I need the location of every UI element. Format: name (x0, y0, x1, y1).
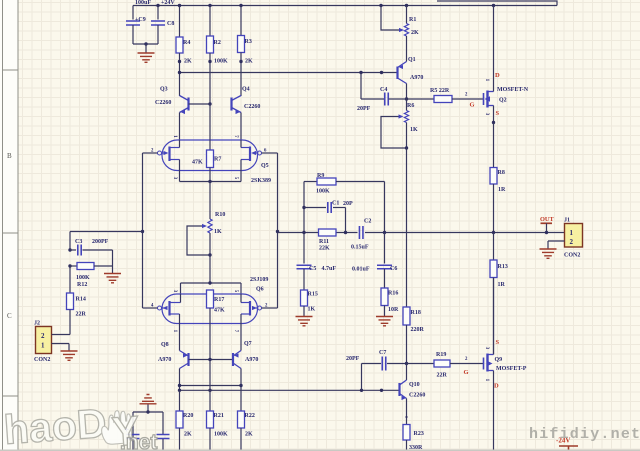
wire Q3-collector to Q1-base (180, 72, 398, 74)
svg-text:R7: R7 (214, 157, 221, 163)
wire Q3 emitter to JFET drain (179, 113, 181, 141)
svg-text:R8: R8 (498, 170, 505, 176)
svg-text:Q7: Q7 (244, 341, 252, 347)
svg-text:R22: R22 (245, 413, 255, 419)
MOSFET Q9 MOSFET-P (483, 358, 485, 370)
wire Q7 collector down (240, 369, 242, 391)
potentiometer R1 2K (405, 4, 408, 7)
svg-text:R3: R3 (245, 39, 252, 45)
resistor R4 (178, 4, 181, 7)
svg-text:1R: 1R (498, 282, 506, 288)
resistor R18 220R (403, 307, 410, 325)
svg-text:R15: R15 (308, 292, 318, 298)
resistor R2 (208, 4, 211, 7)
svg-text:2K: 2K (245, 59, 253, 65)
svg-text:2: 2 (41, 332, 45, 340)
svg-text:R20: R20 (183, 413, 193, 419)
svg-text:Q6: Q6 (256, 287, 264, 293)
wire J2 pin2 to R14 (52, 334, 71, 336)
JFET Q6 left half (168, 301, 170, 316)
svg-text:.net: .net (120, 431, 157, 451)
connector J1 CON2 (565, 224, 583, 248)
transistor Q10 C2260 (406, 364, 408, 381)
wire Q1 collector to VAS node (406, 84, 408, 100)
svg-text:R4: R4 (183, 40, 190, 46)
svg-text:Q10: Q10 (409, 382, 420, 388)
svg-text:G: G (464, 369, 469, 376)
svg-text:R9: R9 (317, 173, 324, 179)
svg-text:C2260: C2260 (155, 100, 171, 106)
svg-text:22R: 22R (437, 373, 448, 379)
wire input column (142, 153, 144, 308)
resistor R23 330R (403, 425, 410, 441)
svg-text:B: B (7, 152, 12, 160)
ground for C3/R12 (112, 250, 114, 273)
svg-text:1: 1 (41, 342, 45, 350)
svg-text:C8: C8 (167, 21, 174, 27)
JFET Q5 left half (168, 147, 170, 162)
resistor R15 1K (301, 290, 308, 306)
svg-text:A970: A970 (158, 357, 171, 363)
capacitor C6 0.01uF (384, 233, 386, 264)
ground under R15 (296, 317, 313, 326)
svg-text:R18: R18 (411, 310, 421, 316)
capacitor C2 0.15uF (359, 226, 363, 239)
capacitor C4 20PF (360, 73, 362, 100)
svg-text:MOSFET-N: MOSFET-N (497, 87, 529, 93)
capacitor C8 (156, 4, 159, 7)
svg-text:1: 1 (570, 229, 574, 237)
capacitor C3 200PF (68, 248, 71, 251)
wire Q6 drains to Q8/Q7 emitters (179, 324, 181, 351)
resistor R16 10R (381, 288, 388, 306)
wire Q8 collector down (179, 369, 181, 391)
svg-text:1R: 1R (498, 187, 506, 193)
svg-text:R13: R13 (498, 264, 508, 270)
svg-text:220R: 220R (411, 327, 425, 333)
resistor R22 (240, 390, 242, 411)
svg-text:22R: 22R (76, 312, 87, 318)
wire input to Q5 left gate (143, 152, 158, 154)
R1 wiper loop (379, 4, 382, 7)
svg-text:S: S (496, 110, 500, 117)
ground below C9/C8 (145, 44, 147, 53)
svg-text:C6: C6 (390, 266, 397, 272)
transistor Q8 A970 (187, 353, 189, 366)
svg-text:100K: 100K (76, 275, 90, 281)
svg-text:20P: 20P (343, 201, 353, 207)
svg-text:R16: R16 (388, 291, 398, 297)
wire J2 pin1 to ground (52, 343, 70, 345)
svg-text:C1: C1 (332, 201, 339, 207)
svg-text:10R: 10R (388, 307, 399, 313)
resistor R17 inside Q6 (207, 290, 214, 308)
svg-text:C5: C5 (309, 266, 316, 272)
output node line (278, 232, 358, 234)
svg-text:C2260: C2260 (409, 393, 425, 399)
svg-text:R6: R6 (407, 103, 414, 109)
svg-text:D: D (494, 383, 499, 390)
svg-text:R10: R10 (215, 212, 225, 218)
wire Q6 sources join (209, 255, 211, 283)
svg-text:0.01uF: 0.01uF (352, 267, 370, 273)
ground under R16 (376, 317, 393, 326)
MOSFET Q2 MOSFET-N (483, 93, 485, 105)
wire bottom bias rail to Q10 base (180, 389, 400, 391)
bottom window edge (0, 450, 640, 451)
wire Q10 emitter to R23 (406, 399, 408, 425)
svg-text:R2: R2 (214, 40, 221, 46)
wire R9 left column (303, 182, 305, 233)
svg-text:2K: 2K (411, 30, 419, 36)
svg-text:20PF: 20PF (357, 106, 371, 112)
svg-text:20PF: 20PF (346, 356, 360, 362)
svg-text:R11: R11 (319, 239, 329, 245)
svg-text:R17: R17 (214, 297, 224, 303)
capacitor C10 (162, 412, 164, 434)
resistor R13 1R (493, 233, 495, 261)
svg-text:22K: 22K (319, 246, 330, 252)
resistor R3 (239, 4, 242, 7)
svg-text:200PF: 200PF (92, 239, 109, 245)
potentiometer R6 1K (406, 99, 408, 111)
svg-text:1K: 1K (214, 229, 222, 235)
svg-text:100K: 100K (214, 432, 228, 438)
wire Q4 emitter to JFET drain (240, 113, 242, 141)
resistor R7 inside Q5 (209, 104, 211, 150)
svg-text:C2: C2 (364, 219, 371, 225)
watermark haoDIY.net (2, 400, 157, 451)
wire Q2 drain to rail (492, 4, 495, 7)
ground at J1 (540, 249, 557, 258)
transistor Q3 C2260 (187, 98, 189, 111)
wire input from J2 network (70, 231, 143, 233)
svg-text:C2260: C2260 (244, 104, 260, 110)
capacitor C5 4.7uF (303, 233, 305, 264)
wire R9 right column (384, 182, 386, 233)
resistor R9 100K (304, 181, 317, 183)
svg-text:2K: 2K (245, 432, 253, 438)
svg-text:47K: 47K (192, 160, 203, 166)
svg-text:4.7uF: 4.7uF (322, 266, 337, 272)
wire top-right stub (437, 1, 557, 6)
svg-text:J1: J1 (564, 218, 570, 224)
dual JFET Q5 2SK389 package outline (162, 140, 258, 171)
capacitor C7 20PF (362, 363, 382, 365)
wire Q6 left gate (143, 307, 158, 309)
potentiometer R10 1K (209, 182, 211, 220)
svg-text:Q4: Q4 (242, 87, 250, 93)
svg-text:2K: 2K (184, 432, 192, 438)
svg-text:G: G (470, 102, 475, 109)
svg-text:R14: R14 (76, 297, 86, 303)
svg-text:Q3: Q3 (160, 87, 168, 93)
svg-text:R23: R23 (414, 431, 424, 437)
resistor R19 22R (407, 363, 435, 365)
wire input node column (69, 232, 71, 251)
wire Q2 source down (493, 106, 495, 123)
svg-text:J2: J2 (34, 321, 40, 327)
svg-text:1K: 1K (410, 127, 418, 133)
svg-text:2SJ109: 2SJ109 (250, 277, 268, 283)
svg-text:C: C (7, 312, 12, 320)
svg-text:C3: C3 (75, 239, 82, 245)
capacitor C11 (electrolytic) (132, 412, 134, 451)
transistor Q7 A970 (232, 353, 234, 366)
wire J1 pin2 to ground (548, 240, 565, 242)
svg-text:2: 2 (570, 238, 574, 246)
wire Q5 sources join (179, 171, 181, 182)
svg-text:hifidiy.net: hifidiy.net (529, 426, 640, 443)
svg-text:0.15uF: 0.15uF (351, 245, 369, 251)
svg-text:100uF: 100uF (135, 0, 151, 6)
svg-text:C7: C7 (379, 350, 386, 356)
left sheet margin (0, 0, 18, 451)
resistor R21 (209, 360, 211, 412)
wire C9/C8 bottom join (133, 43, 158, 45)
svg-text:100K: 100K (214, 59, 228, 65)
svg-text:Q8: Q8 (161, 342, 169, 348)
wire Q9 drain down to -24V (493, 371, 495, 451)
resistor R8 1R (493, 123, 495, 168)
wire VAS column down (406, 148, 408, 307)
svg-text:A970: A970 (245, 357, 258, 363)
ground at J2 (61, 351, 78, 360)
wire Q9 source up (493, 278, 495, 355)
wire Q5 right gate (262, 152, 278, 154)
svg-text:R1: R1 (409, 17, 416, 23)
svg-text:R12: R12 (77, 282, 87, 288)
svg-text:1K: 1K (308, 307, 316, 313)
svg-text:MOSFET-P: MOSFET-P (496, 366, 527, 372)
wire C10/C11 top join (133, 411, 163, 413)
wire +24V top rail (133, 5, 557, 7)
resistor R11 22K (319, 229, 337, 236)
svg-text:R21: R21 (214, 413, 224, 419)
svg-text:2K: 2K (184, 59, 192, 65)
svg-text:R5 22R: R5 22R (430, 88, 450, 94)
svg-text:S: S (496, 339, 500, 346)
svg-text:R19: R19 (436, 352, 446, 358)
svg-text:haoD: haoD (2, 400, 107, 451)
R10 wiper loop (187, 226, 210, 255)
svg-text:Q5: Q5 (261, 163, 269, 169)
JFET Q6 right half (249, 301, 251, 316)
connector J2 CON2 (36, 327, 52, 354)
capacitor C1 20P (304, 207, 326, 209)
capacitor C9 (electrolytic) (132, 6, 134, 20)
svg-text:C4: C4 (380, 87, 387, 93)
resistor R12 100K (68, 264, 71, 267)
wire Q6 right gate to feedback column (262, 307, 278, 309)
JFET Q5 right half (249, 147, 251, 162)
svg-text:2SK389: 2SK389 (251, 178, 271, 184)
svg-text:+C9: +C9 (135, 17, 146, 23)
svg-text:+24V: +24V (161, 0, 175, 6)
svg-text:OUT: OUT (540, 216, 554, 223)
transistor Q4 C2260 (230, 98, 232, 111)
svg-text:D: D (495, 72, 500, 79)
svg-text:Q1: Q1 (408, 57, 416, 63)
resistor R20 (179, 390, 181, 411)
svg-text:100K: 100K (316, 189, 330, 195)
dual JFET Q6 2SJ109 package outline (162, 294, 258, 324)
transistor Q1 A970 (396, 67, 398, 80)
svg-text:CON2: CON2 (564, 253, 580, 259)
svg-text:Q2: Q2 (499, 98, 507, 104)
R6 wiper loop (381, 117, 407, 149)
svg-text:A970: A970 (410, 75, 423, 81)
ground above C10/C11 (inverted) (140, 395, 157, 404)
resistor R14 22R (69, 266, 71, 293)
svg-text:Q9: Q9 (495, 357, 503, 363)
svg-text:47K: 47K (214, 308, 225, 314)
resistor R5 22R (407, 98, 435, 100)
wire collector tie line (180, 385, 242, 387)
svg-text:CON2: CON2 (34, 357, 50, 363)
